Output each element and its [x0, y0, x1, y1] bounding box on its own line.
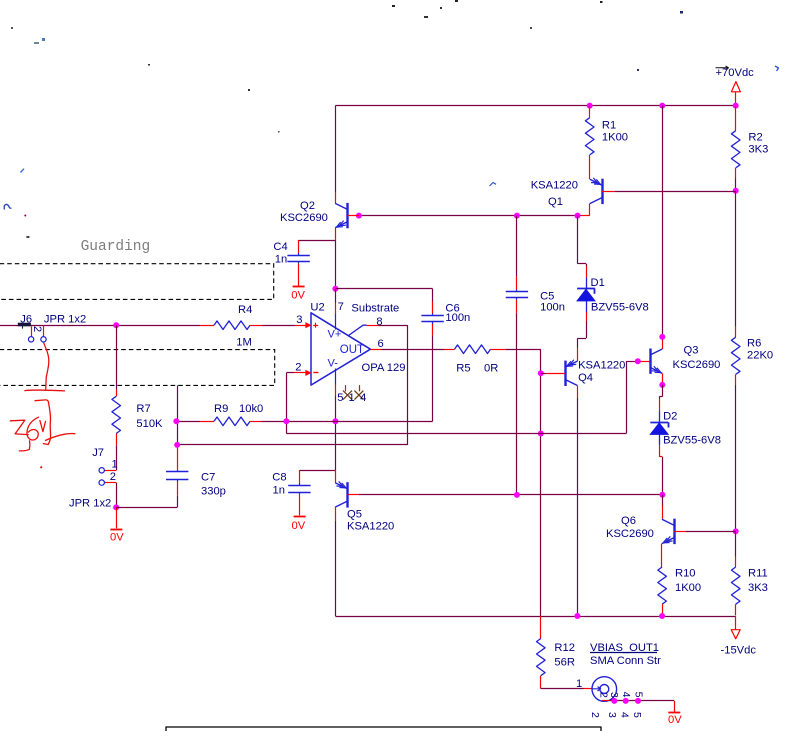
svg-text:0R: 0R — [484, 362, 498, 374]
ground 0V below C4 — [291, 263, 305, 301]
node junction top rail / R2 — [733, 103, 739, 109]
capacitor C4 — [273, 240, 309, 265]
capacitor C7 330p — [166, 470, 226, 498]
node junction Q3 base — [635, 358, 641, 364]
svg-text:1: 1 — [576, 678, 582, 690]
svg-text:R11: R11 — [748, 567, 768, 579]
diode D2 BZV55-6V8 — [650, 411, 721, 447]
svg-text:R2: R2 — [748, 132, 762, 144]
resistor R5 0R — [445, 345, 506, 374]
svg-text:V-: V- — [328, 357, 339, 369]
svg-text:0V: 0V — [292, 520, 306, 532]
resistor R1 — [585, 106, 628, 179]
wire top rail — [335, 105, 735, 107]
svg-text:KSA1220: KSA1220 — [347, 520, 394, 532]
connector J7 JPR 1x2 — [69, 447, 118, 509]
svg-text:Q6: Q6 — [621, 515, 636, 527]
svg-text:C7: C7 — [201, 472, 215, 484]
wire C6 bottom — [432, 324, 434, 421]
svg-text:10k0: 10k0 — [239, 403, 263, 415]
svg-text:U2: U2 — [310, 301, 324, 313]
transistor Q2 KSC2690 — [280, 200, 359, 229]
node junction C7 / pin8 wire — [174, 442, 180, 448]
svg-text:0V: 0V — [291, 289, 305, 301]
node junction Q2 base — [356, 213, 362, 219]
node junction substrate — [332, 286, 338, 292]
wire pin2 feedback vertical — [286, 373, 288, 434]
resistor R9 10k0 — [176, 403, 286, 426]
svg-text:3K3: 3K3 — [748, 144, 768, 156]
svg-text:C8: C8 — [272, 472, 286, 484]
guard box lower — [0, 350, 275, 386]
node junction R6 / Q6 base — [733, 528, 739, 534]
node junction rail / Q4 — [574, 613, 580, 619]
wire opamp guard vertical — [335, 421, 337, 470]
pin 7 lead — [335, 289, 337, 330]
svg-text:KSC2690: KSC2690 — [280, 212, 328, 224]
wire SMA ground — [602, 700, 674, 702]
pin 6 output wire — [370, 349, 444, 351]
svg-text:KSC2690: KSC2690 — [606, 528, 654, 540]
svg-text:4: 4 — [360, 392, 366, 404]
svg-text:1: 1 — [349, 392, 355, 404]
wire input — [0, 325, 200, 327]
svg-text:BZV55-6V8: BZV55-6V8 — [663, 435, 721, 447]
resistor R6 22K0 — [731, 191, 773, 531]
wire Q1 base to R2 — [602, 191, 736, 193]
transistor Q3 KSC2690 — [650, 345, 720, 374]
ground 0V below J7 — [110, 507, 124, 543]
svg-text:100n: 100n — [445, 312, 470, 324]
node junction R9 / pin2 — [283, 418, 289, 424]
svg-text:Q2: Q2 — [300, 200, 315, 212]
power +70Vdc symbol — [716, 66, 755, 105]
svg-text:R9: R9 — [214, 403, 228, 415]
svg-text:BZV55-6V8: BZV55-6V8 — [591, 302, 649, 314]
wire Q3 base — [626, 361, 650, 363]
wire to C6 — [335, 289, 432, 314]
svg-text:J6: J6 — [20, 314, 32, 326]
svg-text:1n: 1n — [273, 484, 285, 496]
node junction input / R7 — [113, 322, 119, 328]
wire D1 bottom — [578, 312, 587, 361]
svg-text:R12: R12 — [554, 642, 575, 654]
svg-text:C4: C4 — [273, 241, 287, 253]
svg-text:2: 2 — [110, 471, 116, 483]
wire D1 top — [578, 216, 587, 278]
resistor R7 510K — [112, 325, 163, 470]
node junction D2 / Q6 — [659, 492, 665, 498]
svg-text:330p: 330p — [201, 485, 226, 497]
node junction feedback — [538, 431, 544, 437]
wire R5 to output node — [506, 349, 541, 616]
svg-text:3: 3 — [606, 712, 618, 718]
svg-text:D2: D2 — [663, 411, 677, 423]
svg-text:0V: 0V — [668, 714, 682, 726]
svg-text:1n: 1n — [275, 253, 287, 265]
wire R12 to connector — [541, 678, 592, 690]
svg-text:0V: 0V — [110, 531, 124, 543]
diode D1 BZV55-6V8 — [577, 277, 649, 314]
svg-text:4: 4 — [620, 692, 632, 698]
resistor R4 1M — [200, 304, 295, 348]
resistor R12 56R — [537, 616, 575, 689]
svg-text:510K: 510K — [136, 418, 163, 430]
svg-text:KSC2690: KSC2690 — [673, 359, 721, 371]
capacitor C5 — [506, 216, 565, 314]
node junction Q3 emitter — [659, 382, 665, 388]
svg-text:J7: J7 — [92, 447, 104, 459]
connector J6 JPR 1x2 — [18, 314, 86, 342]
resistor R10 1K00 — [658, 544, 701, 616]
hand-drawn annotation 26V — [10, 342, 75, 468]
svg-text:2: 2 — [598, 692, 610, 698]
pins 5 1 4 no-connect — [336, 369, 367, 422]
node junction C5 / Q5 base — [514, 492, 520, 498]
svg-text:56R: 56R — [554, 656, 575, 668]
node junction pin5 guard — [332, 418, 338, 424]
wire D2 bottom — [659, 446, 662, 493]
svg-text:JPR 1x2: JPR 1x2 — [69, 497, 111, 509]
wire Q5 base row — [359, 494, 662, 496]
svg-text:+70Vdc: +70Vdc — [716, 67, 755, 79]
wire bottom rail — [335, 616, 735, 618]
svg-text:R1: R1 — [602, 120, 616, 132]
svg-text:JPR 1x2: JPR 1x2 — [44, 314, 86, 326]
svg-text:1: 1 — [112, 459, 118, 471]
svg-text:22K0: 22K0 — [747, 350, 773, 362]
svg-text:6: 6 — [378, 338, 384, 350]
svg-text:KSA1220: KSA1220 — [531, 179, 578, 191]
svg-text:5: 5 — [631, 712, 643, 718]
capacitor C6 — [421, 302, 470, 324]
svg-text:Substrate: Substrate — [351, 302, 399, 314]
node junction top rail / Q3 branch — [659, 103, 665, 109]
resistor R11 3K3 — [731, 531, 768, 615]
node junction sma pin3 — [611, 698, 617, 704]
wire Q5 collector — [335, 507, 337, 616]
node junction bus / D1 branch — [575, 213, 581, 219]
wire C7 bottom — [116, 481, 177, 507]
svg-text:Guarding: Guarding — [81, 239, 151, 255]
pin 8 lead — [349, 325, 408, 335]
svg-text:R7: R7 — [136, 403, 150, 415]
svg-text:100n: 100n — [540, 301, 565, 313]
transistor Q1 KSA1220 — [531, 178, 603, 208]
svg-text:R5: R5 — [456, 362, 470, 374]
node junction R9 left — [173, 418, 179, 424]
svg-text:1K00: 1K00 — [675, 582, 701, 594]
pin 8 feedback loop — [176, 325, 407, 445]
svg-text:SMA Conn Str: SMA Conn Str — [590, 655, 661, 667]
ground 0V at SMA — [668, 701, 682, 726]
svg-text:3: 3 — [296, 314, 302, 326]
guard box upper — [0, 264, 274, 300]
svg-text:R6: R6 — [747, 338, 761, 350]
svg-text:2: 2 — [31, 326, 43, 332]
svg-text:D1: D1 — [591, 277, 605, 289]
node junction J7 / C7 / gnd — [113, 504, 119, 510]
node junction sma pin4 — [623, 698, 629, 704]
transistor Q4 KSA1220 — [541, 360, 626, 387]
wire R9 to C6 leg — [286, 421, 432, 423]
label Guarding — [81, 239, 151, 255]
node junction sma pin5 — [635, 698, 641, 704]
op-amp U2 OPA129 — [295, 301, 405, 385]
transistor Q6 KSC2690 — [606, 495, 736, 544]
node junction bus / C5 — [514, 213, 520, 219]
wire Q4 collector — [577, 386, 579, 617]
svg-text:5: 5 — [632, 692, 644, 698]
pin 3 input arrow — [295, 322, 312, 328]
svg-text:Q3: Q3 — [684, 345, 699, 357]
svg-text:V+: V+ — [328, 328, 342, 340]
svg-text:OPA 129: OPA 129 — [362, 362, 406, 374]
capacitor C8 — [272, 470, 335, 496]
wire C4 branch — [299, 240, 336, 242]
svg-text:Q4: Q4 — [578, 372, 593, 384]
wire Q2 emitter down — [335, 228, 337, 289]
resistor R2 — [731, 106, 768, 191]
node junction top rail / R1 — [587, 103, 593, 109]
svg-text:OUT: OUT — [340, 344, 364, 356]
svg-text:5: 5 — [337, 392, 343, 404]
wire C7 top — [177, 385, 179, 469]
svg-text:3: 3 — [608, 692, 620, 698]
power -15Vdc symbol — [721, 616, 757, 656]
svg-text:-15Vdc: -15Vdc — [721, 644, 757, 656]
wire C5 bottom — [516, 300, 518, 495]
node junction Q4 base — [538, 370, 544, 376]
svg-text:4: 4 — [619, 712, 631, 718]
svg-text:Q1: Q1 — [548, 196, 563, 208]
svg-text:1M: 1M — [236, 336, 252, 348]
node junction R2 / Q1 base — [733, 188, 739, 194]
title block frame — [166, 727, 601, 731]
svg-text:Q5: Q5 — [347, 509, 362, 521]
node junction Q3 collector — [659, 334, 665, 340]
svg-text:R10: R10 — [675, 567, 696, 579]
wire feedback row — [286, 361, 626, 433]
svg-text:3K3: 3K3 — [748, 582, 768, 594]
pin 2 input arrow — [286, 370, 311, 376]
svg-text:R4: R4 — [238, 304, 252, 316]
svg-text:KSA1220: KSA1220 — [578, 360, 625, 372]
wire loop left vertical top — [335, 106, 337, 204]
connector VBIAS_OUT1 SMA — [589, 642, 661, 718]
wire Q1 collector down — [578, 204, 590, 216]
svg-text:7: 7 — [338, 301, 344, 313]
svg-text:2: 2 — [589, 712, 601, 718]
wire Q3 collector — [662, 106, 664, 349]
ground 0V below C8 — [292, 494, 306, 531]
wire D2 top — [659, 385, 662, 411]
wire Q2 base bus — [359, 215, 578, 217]
svg-text:1K00: 1K00 — [602, 131, 628, 143]
transistor Q5 KSA1220 — [335, 470, 394, 532]
wire Q3 emitter — [662, 373, 664, 383]
node junction rail / R10 — [659, 613, 665, 619]
svg-text:2: 2 — [295, 362, 301, 374]
